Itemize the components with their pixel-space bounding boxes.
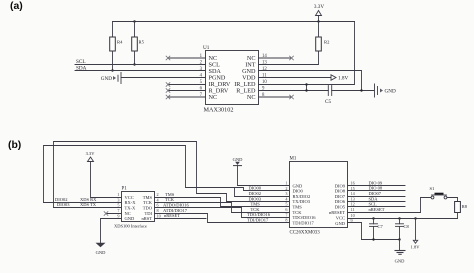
wire VCC rail: [348, 218, 458, 220]
junction C8 on gnd rail: [398, 238, 400, 240]
wire rail A DIO03 top: [54, 142, 290, 208]
IC M1 box CC26XXM033: [290, 157, 348, 236]
junction R4 on SDA: [111, 69, 113, 71]
svg-text:13: 13: [351, 196, 355, 201]
switch S1: [430, 186, 447, 199]
power 1.8V flag: [411, 219, 421, 250]
svg-text:5: 5: [117, 203, 119, 208]
ground GND right of C5: [375, 84, 396, 97]
svg-text:C7: C7: [378, 224, 384, 229]
svg-text:7: 7: [285, 212, 287, 217]
svg-text:2: 2: [157, 192, 159, 197]
svg-text:8: 8: [285, 218, 287, 223]
wire GND stem to M1 pin1: [238, 166, 290, 186]
wire P1 GND lead: [101, 219, 122, 243]
svg-text:GND: GND: [335, 221, 345, 226]
wire R4 bottom lead to SDA: [112, 51, 114, 71]
svg-text:TDI/DIO17: TDI/DIO17: [247, 218, 269, 223]
svg-text:NC: NC: [247, 94, 256, 101]
wire link IR/R LED: [306, 85, 308, 91]
svg-text:DIO6: DIO6: [335, 199, 346, 204]
M1 right pin numbers: [351, 181, 356, 224]
wire R8 bottom to VCC rail: [457, 213, 459, 219]
svg-text:GND: GND: [385, 89, 396, 95]
node 1.8V flag on VDD: [259, 75, 349, 82]
svg-text:3: 3: [285, 191, 287, 196]
svg-text:6: 6: [285, 207, 287, 212]
svg-text:12: 12: [262, 67, 267, 72]
wire S1 right to R8: [447, 198, 458, 202]
ground GND bottom right: [395, 240, 406, 264]
wire U1 pin5 stub: [168, 84, 206, 86]
svg-text:GND: GND: [293, 183, 303, 188]
node XDS RX labels: [55, 197, 97, 202]
svg-text:nRESET: nRESET: [329, 210, 345, 215]
junction 3.3V stem on rail: [317, 20, 319, 22]
svg-text:10: 10: [157, 213, 161, 218]
svg-text:TX/DIO3: TX/DIO3: [293, 199, 311, 204]
wire M1 DIO7 stub: [348, 196, 406, 198]
wire M1 DIO8 stub: [348, 190, 406, 192]
P1 right pin numbers: [157, 192, 161, 218]
capacitor C5: [325, 86, 332, 106]
U1 left pin names: [209, 55, 231, 101]
resistor R2: [316, 37, 330, 51]
svg-text:R8: R8: [462, 204, 468, 209]
svg-text:TCK: TCK: [251, 207, 261, 212]
wire R4 top lead: [112, 22, 114, 38]
svg-text:16: 16: [351, 181, 355, 186]
svg-text:TMS: TMS: [293, 205, 303, 210]
wire C5 right to GND: [332, 90, 374, 92]
wire U1 pin1 NC stub: [168, 57, 206, 59]
svg-text:5: 5: [285, 202, 287, 207]
P1 right pin names: [141, 195, 152, 221]
connector P1 box: [114, 187, 155, 229]
U1 left pin numbers: [200, 54, 203, 98]
svg-text:MAX30102: MAX30102: [204, 107, 234, 114]
svg-text:TCK: TCK: [293, 210, 303, 215]
wire TCK staircase: [155, 203, 290, 213]
svg-text:1.8V: 1.8V: [411, 245, 421, 250]
svg-text:TMS: TMS: [251, 202, 261, 207]
svg-text:TX-X: TX-X: [125, 206, 136, 211]
wire DIO02 drop to M1 pin3: [235, 188, 290, 197]
wire U1 pin13 INT to R2: [259, 51, 319, 65]
svg-text:12: 12: [351, 202, 355, 207]
wire M1 SCL stub: [348, 206, 406, 208]
svg-text:RX/DIO2: RX/DIO2: [293, 194, 311, 199]
svg-text:GND: GND: [96, 250, 106, 255]
wire U1 pin10 IR_LED up to rail: [259, 22, 355, 85]
U1 right pin numbers: [262, 54, 267, 98]
svg-text:6: 6: [157, 203, 159, 208]
resistor R8: [455, 202, 468, 213]
junction C7 on VCC rail: [372, 217, 374, 219]
wire TDO staircase: [155, 208, 290, 218]
svg-text:ATDI/DIO17: ATDI/DIO17: [163, 208, 188, 213]
svg-text:XDS RX: XDS RX: [80, 197, 97, 202]
wire M1 SDA stub: [348, 201, 406, 203]
wire rail B DIO02 top: [44, 146, 290, 203]
svg-text:DIO5: DIO5: [335, 205, 346, 210]
P1 left pin numbers: [117, 192, 119, 218]
wire nRESET stub: [155, 218, 207, 220]
resistor R4: [110, 37, 123, 51]
svg-text:1.8V: 1.8V: [338, 76, 348, 82]
wire TDI staircase: [155, 214, 290, 223]
svg-text:7: 7: [117, 208, 119, 213]
svg-text:DIO 08: DIO 08: [369, 186, 383, 191]
wire M1 nRESET to button: [348, 198, 432, 213]
junction C7 on gnd rail: [372, 238, 374, 240]
svg-text:CC26XXM033: CC26XXM033: [290, 231, 321, 236]
wire P1 TX row: [54, 207, 122, 209]
svg-text:DIO07: DIO07: [369, 191, 382, 196]
svg-text:TCK: TCK: [165, 197, 175, 202]
wire U1 pin14 NC stub: [259, 57, 292, 59]
svg-text:TCK: TCK: [143, 200, 153, 205]
svg-text:VCC: VCC: [125, 195, 134, 200]
svg-text:DIO03: DIO03: [249, 196, 262, 201]
capacitor C7: [370, 219, 384, 240]
svg-text:TDO/DIO16: TDO/DIO16: [247, 212, 271, 217]
svg-text:XDS100 Interface: XDS100 Interface: [114, 224, 147, 229]
wire R5 bottom lead to SCL: [134, 51, 136, 65]
svg-text:DIO 09: DIO 09: [369, 180, 383, 185]
ground GND below P1: [96, 243, 107, 255]
svg-text:2: 2: [285, 186, 287, 191]
svg-text:P1: P1: [122, 187, 128, 192]
M1 left pin numbers: [285, 181, 288, 223]
svg-text:GND: GND: [125, 216, 135, 221]
svg-text:1: 1: [285, 181, 287, 186]
ground GND left of U1: [101, 73, 121, 84]
M1 right pin names: [329, 183, 346, 226]
svg-text:nRESET: nRESET: [164, 213, 180, 218]
capacitor C8: [396, 219, 410, 240]
svg-text:1: 1: [117, 192, 119, 197]
svg-text:TDI: TDI: [145, 211, 153, 216]
wire U1 pin12 GND down: [259, 71, 362, 91]
svg-text:DIO02: DIO02: [55, 197, 68, 202]
wire TMS staircase: [155, 198, 290, 207]
svg-text:DIO8: DIO8: [335, 189, 346, 194]
wire U1 pin6 stub: [168, 90, 206, 92]
junction R5 top on rail: [133, 20, 135, 22]
svg-text:10: 10: [351, 213, 355, 218]
junction R5 on SCL: [133, 63, 135, 65]
svg-text:NC: NC: [209, 94, 218, 101]
svg-text:DIO7: DIO7: [335, 194, 346, 199]
svg-text:11: 11: [351, 207, 355, 212]
svg-text:GND: GND: [101, 76, 112, 82]
wire M1 DIO9 stub: [348, 185, 406, 187]
svg-text:9: 9: [117, 213, 119, 218]
svg-text:GND: GND: [395, 259, 405, 264]
svg-text:VCC: VCC: [336, 216, 345, 221]
svg-text:nRESET: nRESET: [369, 207, 385, 212]
node XDS TX labels: [57, 202, 97, 207]
svg-text:R2: R2: [324, 40, 330, 45]
svg-text:XDS TX: XDS TX: [80, 202, 97, 207]
svg-text:TDO: TDO: [143, 206, 153, 211]
svg-text:ATDO/DIO16: ATDO/DIO16: [163, 203, 189, 208]
P1 left pin names: [125, 195, 137, 221]
wire M1 GND pin down: [348, 223, 362, 240]
svg-text:SDA: SDA: [369, 196, 379, 201]
svg-text:TMS: TMS: [143, 195, 153, 200]
power 3.3V: [314, 4, 324, 22]
svg-text:M1: M1: [290, 157, 297, 162]
svg-text:3.3V: 3.3V: [314, 4, 324, 10]
junction GND node right of C5: [360, 89, 362, 91]
svg-text:DIO0: DIO0: [293, 189, 304, 194]
wire U1 pin9 R_LED to cap: [259, 90, 329, 92]
U1 right pin names: [234, 55, 256, 101]
ground GND above M1: [233, 157, 243, 166]
resistor R5: [132, 37, 145, 51]
svg-text:R4: R4: [117, 40, 123, 45]
svg-text:DIO00: DIO00: [249, 186, 262, 191]
svg-text:3.3V: 3.3V: [86, 151, 96, 156]
svg-text:DIO9: DIO9: [335, 183, 346, 188]
svg-text:8: 8: [157, 208, 159, 213]
wire R5 top lead: [134, 22, 136, 38]
node SCL bus: [75, 59, 206, 65]
junction R_LED node: [305, 89, 307, 91]
wire U1 pin8 NC stub: [259, 96, 292, 98]
wire P1 NC stub: [106, 213, 122, 215]
svg-text:TDI/DIO17: TDI/DIO17: [293, 220, 315, 225]
svg-text:DIO02: DIO02: [249, 191, 262, 196]
svg-text:S1: S1: [430, 186, 435, 191]
svg-text:SCL: SCL: [369, 202, 378, 207]
svg-text:RX-X: RX-X: [125, 200, 137, 205]
node SDA bus: [75, 65, 206, 71]
op-amp U1 box MAX30102: [203, 45, 259, 114]
svg-text:C5: C5: [325, 99, 331, 105]
wire P1 RX row: [44, 202, 122, 204]
svg-text:GND: GND: [233, 157, 243, 162]
svg-text:TMS: TMS: [165, 192, 175, 197]
junction 1.8V drop on VCC rail: [414, 217, 416, 219]
wire PGND lead: [121, 77, 206, 79]
wire R2 top lead: [318, 22, 320, 38]
junction IR_LED node: [305, 83, 307, 85]
svg-text:nRST: nRST: [141, 216, 152, 221]
svg-text:C8: C8: [404, 224, 410, 229]
power 3.3V b: [86, 151, 122, 198]
M1 left pin names: [293, 183, 317, 225]
svg-text:R5: R5: [139, 40, 145, 45]
wire bottom gnd rail: [362, 239, 400, 241]
svg-text:(a): (a): [10, 1, 23, 12]
junction C8 on VCC rail: [398, 217, 400, 219]
wire 3.3V rail: [113, 21, 355, 23]
svg-text:TDO/DIO16: TDO/DIO16: [293, 215, 317, 220]
svg-text:NC: NC: [125, 211, 131, 216]
wire U1 pin7 stub: [168, 96, 206, 98]
svg-text:DIO03: DIO03: [57, 202, 70, 207]
svg-text:3: 3: [117, 197, 119, 202]
svg-text:(b): (b): [8, 140, 21, 151]
node net labels at M1 left: [247, 186, 271, 223]
